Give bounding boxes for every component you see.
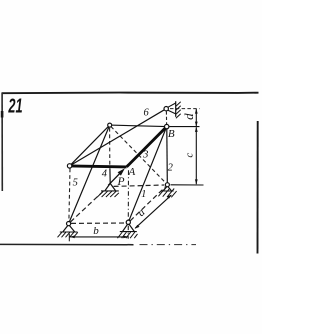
construction: dashed bottom edge FL-FR [71,222,126,224]
node L [67,164,71,168]
svg-text:d: d [181,113,196,120]
svg-text:1: 1 [141,189,146,200]
svg-text:a: a [135,206,148,219]
wall attachment at top (rod 6 anchor) [167,103,176,114]
dimension d line with arrows [195,109,197,126]
node wall point [164,107,168,111]
dimension extension from B [169,126,199,128]
top face edge apex-B [110,125,167,127]
svg-text:b: b [93,225,99,237]
node B [165,124,169,128]
rod 2 : B to foot RR (vertical) [166,129,169,183]
svg-text:21: 21 [8,95,23,118]
rod 1 : foot FR to B [128,127,166,223]
svg-text:5: 5 [73,178,78,189]
construction: vertical dashed from node L down to foot FL [69,169,70,222]
support pin FR [123,223,135,231]
force P arrow [108,171,122,185]
frame border bottom dash-dot [140,244,197,246]
svg-text:B: B [168,128,175,140]
construction: dashed bottom edge RL-RR [114,185,165,186]
node RR [165,183,169,187]
construction: dashed bottom edge FR-RR [130,187,166,221]
dimension b line with arrows [70,236,128,238]
frame border left [1,93,3,191]
svg-text:4: 4 [102,169,108,180]
dimension c line with arrows [195,127,197,184]
dimension b extension below FL [68,234,70,242]
construction: dashed vertical wall point to B [165,111,167,124]
svg-text:2: 2 [168,163,174,174]
construction: dashed bottom edge FL-RL [70,191,103,222]
rod 6 : L to wall point [70,109,167,166]
node FL [67,222,71,226]
support pin FL [63,225,75,232]
dimension a line with arrows [135,195,171,228]
rod 4 : bar to ground pin RL [109,168,111,183]
svg-text:3: 3 [142,149,148,160]
frame border bottom solid [0,243,134,245]
svg-text:P: P [116,176,124,188]
frame border top [2,92,259,95]
thick bent bar A-B (rod 3) [127,127,167,167]
construction: dash-dot vertical from corner A down through foot FR [127,170,129,220]
node apex [108,123,112,127]
svg-text:6: 6 [143,107,149,118]
node FR [126,220,130,224]
construction: vertical dashed from apex down to bar [109,128,111,165]
construction: dashed diagonal apex to foot RR [111,126,166,183]
support pin RR [163,186,171,191]
top face edge L-apex [70,125,110,166]
left border dark patch [1,111,4,118]
frame border right [257,121,259,254]
thick bent bar L-A [70,166,127,167]
rod 5 : foot FL to apex [69,125,110,224]
svg-text:A: A [128,166,136,178]
svg-text:c: c [183,153,195,158]
dimension extension from RR [171,184,204,186]
support pin RL (under force P) [105,183,116,190]
dimension d extension dashed from wall point [170,108,200,110]
